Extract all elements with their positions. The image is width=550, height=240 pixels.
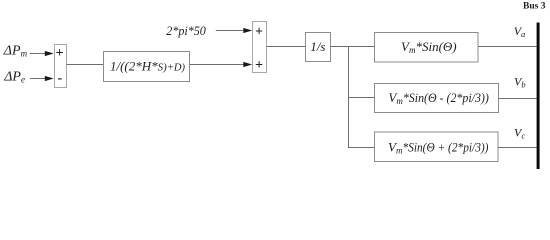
svg-text:2*pi*50: 2*pi*50 bbox=[166, 23, 206, 38]
wire dPm to Sum1 arrow bbox=[30, 51, 54, 56]
svg-text:Vm*Sin(Θ - (2*pi/3)): Vm*Sin(Θ - (2*pi/3)) bbox=[388, 90, 488, 106]
transfer function block 1/((2*H*S)+D) bbox=[104, 52, 190, 82]
wire Vb to bus bbox=[499, 98, 538, 100]
wire Va to bus bbox=[478, 46, 537, 48]
svg-text:1/s: 1/s bbox=[310, 39, 325, 54]
junction vertical wire bbox=[348, 47, 350, 149]
wire 2*pi*50 to Sum2 arrow bbox=[216, 28, 252, 33]
svg-text:+: + bbox=[56, 46, 64, 61]
summing block Sum1 bbox=[55, 45, 67, 88]
integrator block 1/s bbox=[306, 33, 331, 62]
svg-text:Bus 3: Bus 3 bbox=[523, 2, 546, 12]
wire transfer fn to Sum2 arrow bbox=[190, 62, 253, 67]
block Vm*Sin(Theta - 2*pi/3) bbox=[375, 84, 499, 113]
wire Sum1 to transfer fn bbox=[67, 64, 104, 66]
bus bar Bus 3 bbox=[537, 23, 540, 170]
wire branch to Sin block c bbox=[349, 147, 375, 149]
wire Vc to bus bbox=[498, 147, 537, 149]
svg-text:Vm*Sin(Θ + (2*pi/3)): Vm*Sin(Θ + (2*pi/3)) bbox=[388, 139, 488, 155]
block Vm*Sin(Theta) bbox=[375, 33, 479, 63]
wire integrator to Sin block a bbox=[331, 46, 375, 48]
wire dPe to Sum1 arrow bbox=[30, 76, 54, 81]
block Vm*Sin(Theta + 2*pi/3) bbox=[375, 132, 499, 162]
svg-text:+: + bbox=[255, 58, 263, 73]
svg-text:+: + bbox=[255, 24, 263, 39]
wire branch to Sin block b bbox=[349, 97, 375, 99]
summing block Sum2 bbox=[253, 22, 267, 74]
svg-text:-: - bbox=[57, 71, 62, 86]
wire Sum2 to integrator bbox=[267, 46, 306, 48]
